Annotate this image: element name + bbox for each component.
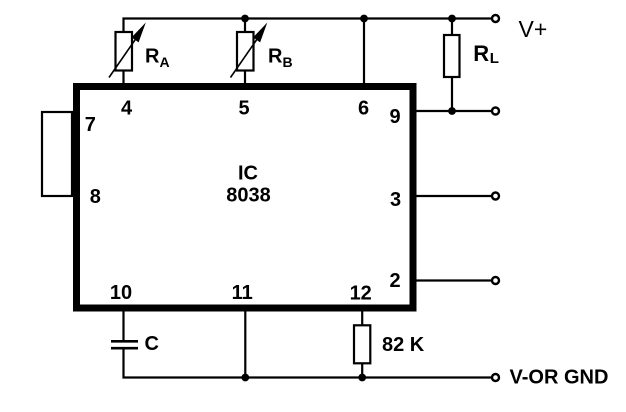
wire RB top [244,19,246,33]
node junction pin 6 rail [360,15,368,23]
RB arrow (variable) [231,39,258,78]
svg-text:9: 9 [389,106,400,128]
svg-text:L: L [490,50,499,67]
svg-text:V+: V+ [519,16,548,42]
wire RA bottom to pin 4 [122,72,124,85]
node junction 82K rail [358,374,366,382]
svg-text:C: C [145,333,159,355]
terminal V+ [492,15,499,22]
wire top rail V+ [124,19,492,32]
capacitor C bottom plate [111,347,138,350]
svg-text:V-OR GND: V-OR GND [510,367,609,389]
svg-text:A: A [160,54,170,70]
svg-text:5: 5 [238,98,249,120]
terminal pin 3 output [492,193,499,200]
svg-text:R: R [268,46,283,68]
svg-text:6: 6 [358,98,369,120]
wire RL bottom to pin 9 line [451,77,453,111]
svg-text:IC: IC [238,163,258,185]
potentiometer RB body [237,32,254,71]
RA arrow (variable) [109,39,136,78]
wire pin 3 output [416,195,492,197]
potentiometer RA body [116,32,133,71]
wire pin 2 output [416,279,492,281]
svg-text:82 K: 82 K [382,334,425,356]
resistor 82K body [354,325,370,363]
svg-text:3: 3 [390,189,401,211]
strap box pins 7-8 [42,112,72,196]
wire pin 10 to capacitor [122,311,124,340]
svg-text:8: 8 [90,186,101,208]
capacitor C top plate [111,340,138,343]
wire RB bottom to pin 5 [244,72,246,85]
wire pin 11 down [244,311,246,378]
IC U1 8038 body [77,87,414,309]
wire pin 6 to rail [363,19,365,85]
svg-text:11: 11 [232,282,253,304]
svg-text:12: 12 [350,283,372,305]
node junction RB top [241,15,249,23]
node junction RL bottom pin 9 [448,107,456,115]
svg-text:B: B [283,54,293,70]
wire RL top [451,19,453,36]
node junction pin 11 rail [241,374,249,382]
svg-text:4: 4 [121,98,133,120]
terminal pin 9 output [492,108,499,115]
wire pin 9 output [416,110,492,112]
svg-text:10: 10 [110,282,132,304]
svg-text:R: R [145,46,160,68]
svg-text:7: 7 [85,114,96,136]
terminal V- or GND [492,374,499,381]
wire 82K bottom [361,363,363,377]
wire bottom rail [124,350,492,378]
svg-text:R: R [473,41,489,66]
svg-text:2: 2 [389,270,400,292]
svg-text:8038: 8038 [226,185,271,207]
resistor RL body [444,35,460,77]
node junction RL top [448,15,456,23]
wire pin 12 to 82K [361,311,363,325]
terminal pin 2 output [492,277,499,284]
